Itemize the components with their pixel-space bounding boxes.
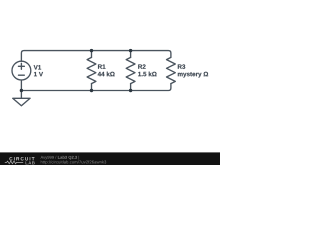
- wire R1 bottom stub: [91, 84, 93, 91]
- label R3 value mystery Ohm: [178, 72, 208, 78]
- node R1 top junction: [90, 49, 93, 52]
- label R1 designator: [98, 64, 105, 68]
- watermark bar: [0, 152, 220, 165]
- node junction dots: [20, 49, 133, 92]
- label R2 designator: [138, 64, 145, 68]
- ground: [13, 91, 30, 106]
- node R2 top junction: [129, 49, 132, 52]
- node R2 bottom junction: [129, 89, 132, 92]
- label R1 value 44 kOhm: [98, 72, 115, 77]
- voltage source V1: [12, 61, 31, 80]
- label R2 value 1.5 kOhm: [138, 72, 156, 77]
- resistor R2: [126, 57, 135, 83]
- resistor R1: [87, 57, 96, 83]
- CircuitLab logo: [5, 157, 35, 164]
- wire R2 bottom stub: [130, 84, 132, 91]
- wire top rail: [21, 51, 171, 62]
- label V1 value 1 V: [34, 72, 43, 76]
- node R1 bottom junction: [90, 89, 93, 92]
- watermark text: [41, 156, 107, 165]
- wire bottom rail: [21, 84, 171, 91]
- label V1 designator: [34, 65, 41, 69]
- label R3 designator: [178, 64, 185, 68]
- resistor R3: [167, 57, 176, 83]
- wire R2 top stub: [130, 51, 132, 58]
- wire V1 bottom to node: [20, 80, 22, 90]
- wire R1 top stub: [91, 51, 93, 58]
- node ground junction: [20, 89, 23, 92]
